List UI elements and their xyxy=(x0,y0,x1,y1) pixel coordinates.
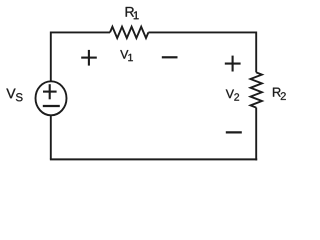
minus sign V1 xyxy=(162,56,178,58)
voltage source minus sign xyxy=(43,105,60,107)
voltage source plus sign xyxy=(43,84,57,99)
label V1 xyxy=(120,50,133,61)
label VS xyxy=(6,89,22,102)
wire top-left segment xyxy=(51,31,110,33)
wire left upper stub xyxy=(50,32,52,82)
wire top-right segment xyxy=(148,31,256,33)
wire right upper segment xyxy=(255,32,257,73)
wire bottom segment xyxy=(50,158,257,160)
voltage source VS circle xyxy=(36,81,67,115)
label R2 xyxy=(273,88,286,100)
resistor R2 xyxy=(251,72,262,107)
plus sign V2 xyxy=(225,56,241,72)
minus sign V2 xyxy=(226,131,242,133)
label V2 xyxy=(226,90,239,101)
wire left lower stub xyxy=(50,115,52,159)
wire right lower segment xyxy=(255,108,257,161)
resistor R1 xyxy=(110,27,148,38)
label R1 xyxy=(126,7,139,19)
plus sign V1 xyxy=(81,50,97,66)
